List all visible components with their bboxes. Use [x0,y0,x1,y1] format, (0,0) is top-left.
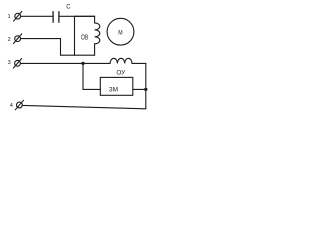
terminal 3 [13,59,21,69]
terminal 1 [14,11,22,21]
node junction left [81,62,84,65]
wire capacitor to winding OB [59,15,94,17]
field winding OB box [75,16,100,55]
terminal 4 [15,100,23,110]
wire terminal2 to OB bottom [21,39,75,56]
brake electromagnet ZM box [100,77,133,95]
svg-text:2: 2 [8,37,11,43]
svg-text:С: С [66,5,71,11]
wire 3 left section [21,62,111,64]
motor M circle [107,18,134,45]
svg-text:1: 1 [7,14,10,20]
terminal 3 label [8,60,11,66]
svg-text:4: 4 [10,103,13,109]
capacitor C [53,12,59,23]
terminal 4 label [10,103,13,109]
capacitor C value label [66,5,71,11]
ZM label [109,86,118,93]
winding OB label [81,35,88,42]
motor M label [118,29,122,36]
wire 4 [22,105,145,108]
wire right vertical [145,63,147,108]
inductor OU label [116,70,126,77]
svg-text:ЗМ: ЗМ [109,86,118,93]
svg-text:ОУ: ОУ [116,70,126,77]
inductor OU coil [110,58,132,63]
wire terminal1 to capacitor [21,15,53,17]
node junction right [144,88,147,91]
terminal 2 label [8,37,11,43]
svg-text:3: 3 [8,60,11,66]
wire left branch down [83,63,100,89]
svg-text:М: М [118,29,122,36]
terminal 1 label [7,14,10,20]
terminal 2 [13,34,21,44]
wire 3 right section [132,62,146,64]
svg-text:ОВ: ОВ [81,35,88,42]
wire ZM right connector [133,88,146,90]
